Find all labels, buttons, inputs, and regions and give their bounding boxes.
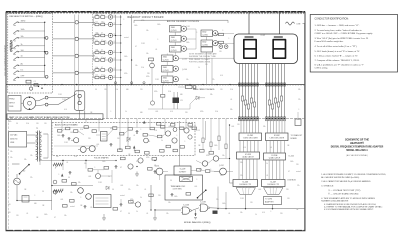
svg-text:27k: 27k <box>298 99 301 101</box>
display digit V1 <box>243 36 257 59</box>
svg-text:47: 47 <box>101 14 103 16</box>
capacitor C1 trimmer cluster <box>26 80 43 90</box>
svg-text:33k: 33k <box>56 156 59 158</box>
svg-text:1k: 1k <box>255 214 257 216</box>
svg-text:120: 120 <box>96 33 99 35</box>
svg-text:10k: 10k <box>10 151 13 153</box>
resistor R71 <box>118 149 123 152</box>
svg-text:470k: 470k <box>141 20 145 22</box>
svg-text:FOR PIN CONNECTIONS.: FOR PIN CONNECTIONS. <box>189 61 211 63</box>
wire lower left rails <box>40 119 104 210</box>
transistor Q103 digit driver stage <box>93 32 122 37</box>
svg-text:47: 47 <box>135 46 137 48</box>
svg-text:S2: S2 <box>23 171 25 173</box>
svg-text:100k: 100k <box>174 196 178 198</box>
wire IC202 to IC204 <box>267 141 285 154</box>
svg-text:120: 120 <box>237 124 240 126</box>
svg-text:Q-1: Q-1 <box>114 50 117 52</box>
svg-text:Q-2N41: Q-2N41 <box>163 80 169 82</box>
svg-text:MODEL IMA-2420-1 (FREQ): MODEL IMA-2420-1 (FREQ) <box>184 221 211 224</box>
svg-text:10k: 10k <box>135 65 138 67</box>
diode D61 <box>106 186 109 190</box>
capacitor C44 <box>109 143 112 146</box>
svg-text:56: 56 <box>68 177 70 179</box>
svg-text:4. THIS SCHEMATIC APPLIES TO: 4. THIS SCHEMATIC APPLIES TO MODELS WITH… <box>321 197 375 200</box>
transistor Q212 <box>201 40 218 47</box>
bus collector trapezoid A <box>236 187 256 195</box>
label pulse amp <box>94 156 109 159</box>
wire amp links <box>62 129 165 137</box>
svg-text:C1: C1 <box>34 81 36 83</box>
svg-text:100k: 100k <box>186 42 190 44</box>
wire readout vertical bus A <box>115 15 117 119</box>
svg-text:3.3k: 3.3k <box>199 169 202 171</box>
svg-text:27k: 27k <box>30 177 33 179</box>
svg-text:470k: 470k <box>146 76 150 78</box>
svg-text:10k: 10k <box>64 215 67 217</box>
transistor Q41 <box>71 138 79 143</box>
transistor Q105 <box>150 61 155 85</box>
resistor bundle R31 <box>244 100 246 105</box>
connector shell P2 <box>75 91 85 111</box>
title block schematic of the heathkit <box>331 139 384 158</box>
resistor R1 input divider <box>6 40 13 51</box>
svg-text:2. ALL CAPACITOR VALUES IN µF: 2. ALL CAPACITOR VALUES IN µF UNLESS MAR… <box>321 180 371 183</box>
readout board dashed boundary <box>93 14 305 85</box>
component value labels <box>8 15 301 220</box>
wire right mid <box>196 159 229 164</box>
resistor bundle R42 <box>274 98 276 103</box>
svg-text:3.3k: 3.3k <box>103 58 106 60</box>
transistor Q203 <box>170 46 187 53</box>
transistor Q47 <box>188 135 192 139</box>
switch contact S1B-6 <box>13 56 45 61</box>
svg-text:TIME BASE OSC: TIME BASE OSC <box>171 185 186 188</box>
svg-text:47: 47 <box>101 49 103 51</box>
fuse F1 <box>14 178 21 185</box>
svg-text:.005: .005 <box>88 176 91 178</box>
wire segment ag V1 <box>257 64 259 119</box>
wire segment bf V2 <box>281 64 283 119</box>
svg-text:SCHMITT: SCHMITT <box>179 172 187 174</box>
capacitor C91 <box>170 193 173 196</box>
svg-text:1. GRD bus — foreman — RGB, a: 1. GRD bus — foreman — RGB, and across "… <box>315 24 360 27</box>
svg-text:100k: 100k <box>124 56 128 58</box>
svg-text:15k: 15k <box>30 155 33 157</box>
svg-text:.005: .005 <box>231 126 234 128</box>
svg-text:CONN" to a 100 kΩ / DIP — CONN: CONN" to a 100 kΩ / DIP — CONN. B/TUBE 1… <box>315 32 374 35</box>
svg-text:1k: 1k <box>136 211 138 213</box>
resistor R51 <box>180 146 184 149</box>
transistor Q64 <box>130 202 141 207</box>
transistor Q107 digit driver stage <box>93 67 122 72</box>
svg-text:.01: .01 <box>144 189 146 191</box>
svg-text:33k: 33k <box>240 162 243 164</box>
display digit V2 <box>272 36 286 59</box>
transistor Q82 <box>213 156 218 161</box>
wire bottom rail <box>104 210 155 218</box>
wire stack link <box>166 72 168 76</box>
svg-text:120: 120 <box>8 212 11 214</box>
wire segment driver header rail <box>134 20 228 23</box>
transistor Q45 <box>172 138 177 143</box>
svg-text:10k: 10k <box>146 53 149 55</box>
svg-text:IC-205: IC-205 <box>289 155 294 157</box>
resistor R69 <box>129 201 134 204</box>
switch S3 cal <box>197 189 207 198</box>
svg-text:3.3k: 3.3k <box>154 130 157 132</box>
svg-text:V1 V2: V1 V2 <box>261 35 266 37</box>
resistor R49 <box>158 135 162 138</box>
resistor R63 <box>62 180 67 183</box>
transistor Q42 <box>78 146 86 152</box>
crystal Y1 <box>180 177 193 182</box>
svg-text:4.7k: 4.7k <box>220 75 223 77</box>
svg-text:56: 56 <box>16 123 18 125</box>
wire mid vertical a <box>119 119 121 149</box>
transistor Q104 digit driver stage <box>93 40 122 45</box>
transistor Q43 <box>87 146 96 152</box>
resistor R54 <box>166 145 170 148</box>
svg-text:Q-2N41: Q-2N41 <box>202 34 208 36</box>
wire driver pair brace <box>93 70 95 78</box>
svg-text:5. GDC loads (brown) is a red: 5. GDC loads (brown) is a red "D" is bro… <box>315 50 361 53</box>
wire lower mid links <box>63 161 112 184</box>
resistor R47 <box>143 134 147 137</box>
svg-text:FREQ: FREQ <box>9 99 15 101</box>
svg-text:DIGITAL FREQUENCY/TEMPERATURE: DIGITAL FREQUENCY/TEMPERATURE ADAPTER <box>331 145 384 148</box>
svg-text:Q-2N41: Q-2N41 <box>171 30 177 32</box>
capacitor C32 rail <box>53 119 57 194</box>
label Q103 <box>182 59 187 72</box>
resistor bundle R30 <box>241 96 243 101</box>
svg-text:.1: .1 <box>80 197 81 199</box>
capacitor C96 gate coupling <box>194 213 197 220</box>
node bus taps <box>114 82 145 84</box>
svg-text:QUAD LATCH: QUAD LATCH <box>269 157 281 160</box>
wire mid rail <box>40 160 115 161</box>
svg-text:7-SEG DECODER: 7-SEG DECODER <box>269 138 285 140</box>
svg-text:220: 220 <box>140 89 143 91</box>
wire segment be V2 <box>278 64 280 119</box>
label main circuit board <box>193 88 215 91</box>
svg-text:1MHz: 1MHz <box>21 21 26 23</box>
resistor R55 <box>173 149 177 152</box>
svg-text:10k: 10k <box>240 212 243 214</box>
svg-text:Q-2N41: Q-2N41 <box>171 40 177 42</box>
svg-text:NOTE: SEGMENT LETTERS ARE: NOTE: SEGMENT LETTERS ARE <box>189 53 217 56</box>
svg-text:.1: .1 <box>94 167 95 169</box>
wire diagonal jack feed <box>58 94 77 105</box>
svg-text:470k: 470k <box>206 155 210 157</box>
wire IC204 to IC207 <box>266 160 284 180</box>
capacitor C95 dark <box>213 211 218 214</box>
capacitor C42 <box>135 130 138 134</box>
svg-text:Q-1: Q-1 <box>114 68 117 70</box>
switch contact S1B-1 <box>13 21 45 26</box>
svg-text:LINE: LINE <box>10 142 15 144</box>
node connector P1-2 <box>75 37 78 40</box>
capacitor C110 <box>150 85 154 106</box>
diode D110 <box>196 96 205 100</box>
switch contact S1B-2 <box>13 29 45 34</box>
wire segment bb V2 <box>269 64 271 119</box>
svg-text:.1: .1 <box>196 32 197 34</box>
wire AC feed right edge <box>303 24 305 231</box>
svg-text:47: 47 <box>288 171 290 173</box>
resistor lower feed taps <box>202 136 227 149</box>
node connector P1-4 <box>75 71 78 74</box>
svg-text:IC-203: IC-203 <box>245 154 251 156</box>
wire IC203 to IC206 <box>239 159 257 180</box>
connector band V2 lower <box>266 117 286 121</box>
IC U206 counter <box>262 180 286 187</box>
IC U202 seven segment decoder <box>266 133 289 141</box>
svg-text:R1: R1 <box>6 46 8 48</box>
notes box conductor identification <box>310 15 397 73</box>
svg-text:TO DVM: TO DVM <box>265 199 272 201</box>
resistor R103 <box>149 58 154 61</box>
terminal block input label box <box>8 96 21 112</box>
resistor R61 pot <box>53 163 63 169</box>
svg-text:IC-202: IC-202 <box>274 135 280 137</box>
wire IC201 input pins <box>241 120 258 133</box>
transistor Q202 <box>170 36 187 43</box>
svg-text:15k: 15k <box>96 15 99 17</box>
arrow +5V b <box>143 121 145 124</box>
svg-text:47: 47 <box>101 67 103 69</box>
svg-text:.1: .1 <box>298 109 299 111</box>
svg-text:33k: 33k <box>24 159 27 161</box>
svg-text:Q-2N41: Q-2N41 <box>163 70 169 72</box>
svg-text:56: 56 <box>42 191 44 193</box>
svg-text:33k: 33k <box>263 126 266 128</box>
svg-text:.01: .01 <box>155 49 157 51</box>
ground G1 <box>135 172 139 177</box>
svg-text:BOARD: BOARD <box>291 137 298 140</box>
resistor hang R208 <box>188 124 200 133</box>
transistor Q48 <box>144 138 149 143</box>
svg-text:1k: 1k <box>125 111 127 113</box>
svg-text:7-SEG DECODER: 7-SEG DECODER <box>243 138 259 140</box>
wire driver pair brace <box>93 17 95 25</box>
capacitor C61 <box>114 165 117 169</box>
transistor Q201 <box>170 26 187 33</box>
svg-text:6. 1 100 µs values marked "B": 6. 1 100 µs values marked "B" — ranges: … <box>315 54 359 57</box>
svg-text:.01: .01 <box>66 162 68 164</box>
wire power loop <box>12 145 52 201</box>
svg-text:HEATHKIT SCHEMATIC 595-1696: HEATHKIT SCHEMATIC 595-1696 <box>3 45 6 77</box>
transistor Q106 digit driver stage <box>93 57 122 62</box>
svg-text:120: 120 <box>8 204 11 206</box>
label main board strip <box>7 114 103 120</box>
node jack lugs <box>45 96 48 106</box>
svg-text:.005: .005 <box>258 189 261 191</box>
svg-text:T1: T1 <box>36 128 38 130</box>
transistor Q71 <box>128 164 133 169</box>
label page margin vertical <box>3 45 6 77</box>
svg-text:100k: 100k <box>8 121 12 123</box>
svg-text:27k: 27k <box>212 79 215 81</box>
svg-text:.005: .005 <box>155 111 158 113</box>
svg-text:1MΩ: 1MΩ <box>9 106 14 108</box>
svg-text:33k: 33k <box>298 89 301 91</box>
transistor Q101 digit driver stage <box>93 14 122 19</box>
resistor R70 <box>113 208 118 211</box>
wire counters to rail <box>230 125 246 209</box>
svg-text:3.3k: 3.3k <box>230 89 233 91</box>
svg-text:.1: .1 <box>123 19 124 21</box>
svg-text:.01: .01 <box>133 135 135 137</box>
wire range bus 4 <box>53 72 95 74</box>
resistor bundle R32 <box>247 104 249 109</box>
svg-text:100k: 100k <box>214 145 218 147</box>
svg-text:1. ALL RESISTORS ARE 1/4 WATT: 1. ALL RESISTORS ARE 1/4 WATT, 5% UNLESS… <box>321 173 386 176</box>
svg-text:56: 56 <box>170 180 172 182</box>
svg-text:.01: .01 <box>96 68 98 70</box>
svg-text:.1: .1 <box>58 174 59 176</box>
wire line to transformer <box>27 134 48 158</box>
svg-text:.01: .01 <box>26 213 28 215</box>
svg-text:QUAD LATCH: QUAD LATCH <box>242 156 254 159</box>
resistor R52 <box>84 126 88 129</box>
resistor R82 <box>209 152 214 155</box>
svg-text:220: 220 <box>286 189 289 191</box>
svg-text:IC-209: IC-209 <box>180 168 185 170</box>
svg-text:33k: 33k <box>103 75 106 77</box>
node connector P1-3 <box>75 54 78 57</box>
capacitor C63 <box>119 199 122 206</box>
svg-text:MAIN CIRCUIT BOARD: MAIN CIRCUIT BOARD <box>193 88 215 91</box>
svg-text:100k: 100k <box>44 214 48 216</box>
svg-text:220: 220 <box>147 73 150 75</box>
svg-text:ANODE SEGMENT DRIVERS: ANODE SEGMENT DRIVERS <box>167 20 200 23</box>
resistor R66 <box>63 205 68 208</box>
resistor R56 <box>135 150 139 153</box>
svg-text:READOUT CIRCUIT BOARD: READOUT CIRCUIT BOARD <box>128 16 164 19</box>
svg-text:TO READOUT: TO READOUT <box>291 134 304 137</box>
resistor R68 <box>104 167 109 170</box>
svg-text:DECADE CTR: DECADE CTR <box>239 183 251 186</box>
svg-text:4.7k: 4.7k <box>262 212 265 214</box>
resistor R44 <box>113 127 117 130</box>
svg-text:220: 220 <box>117 138 120 140</box>
label model number <box>184 221 211 224</box>
switch S2 power <box>19 164 30 175</box>
svg-text:1.5k: 1.5k <box>95 21 98 23</box>
resistor R62 pot <box>53 190 63 196</box>
svg-text:100k: 100k <box>134 25 138 27</box>
resistor R45 <box>120 132 124 135</box>
resistor R65 <box>70 200 75 203</box>
svg-text:100k: 100k <box>102 161 106 163</box>
svg-text:470k: 470k <box>124 73 128 75</box>
wire segment bc V2 <box>272 64 274 119</box>
wire range bus 2 <box>53 38 95 40</box>
wire segment ae V1 <box>251 64 253 119</box>
capacitor C41 <box>61 134 64 137</box>
label V1 V2 <box>261 35 266 37</box>
svg-text:10k: 10k <box>84 163 87 165</box>
svg-text:COM is wiring.: COM is wiring. <box>315 66 329 69</box>
svg-text:10k: 10k <box>21 36 24 38</box>
wire segment ab V1 <box>242 64 244 119</box>
svg-text:3.3k: 3.3k <box>80 129 83 131</box>
svg-text:56: 56 <box>112 189 114 191</box>
svg-text:15k: 15k <box>220 175 223 177</box>
wire osc input <box>149 185 153 211</box>
svg-text:3.3k: 3.3k <box>168 91 171 93</box>
resistor R50 <box>180 127 184 130</box>
IC U203 latch <box>237 152 260 159</box>
wire mid band links <box>148 98 196 109</box>
svg-text:4.3 VOLTAGES MEASURED WITH NO: 4.3 VOLTAGES MEASURED WITH NO SIGNAL INP… <box>324 208 374 211</box>
svg-text:IC-206: IC-206 <box>242 181 248 183</box>
svg-text:Q-1: Q-1 <box>114 22 117 24</box>
svg-text:470k: 470k <box>146 157 150 159</box>
resistor bundle R40 <box>268 100 270 105</box>
resistor R46 <box>128 128 132 131</box>
wire stacks to display <box>178 29 234 58</box>
wire bottom right rail <box>233 208 305 209</box>
svg-text:120: 120 <box>250 202 253 204</box>
svg-text:IC-204: IC-204 <box>272 155 278 157</box>
transistor Q62 <box>86 194 92 200</box>
svg-text:47: 47 <box>101 32 103 34</box>
jack J1 input connector <box>21 97 39 110</box>
wire driver pair brace <box>93 36 95 44</box>
svg-text:56: 56 <box>270 147 272 149</box>
svg-text:.1: .1 <box>110 111 111 113</box>
label S1B selector switch title <box>9 16 43 18</box>
ground G3 <box>153 218 157 220</box>
svg-text:Q-2N41: Q-2N41 <box>202 44 208 46</box>
resistor R205 <box>197 169 201 172</box>
wire main horizontal interconnect bus <box>6 84 305 86</box>
resistor R41 <box>58 130 62 133</box>
svg-text:.01: .01 <box>230 99 232 101</box>
svg-text:27k: 27k <box>216 199 219 201</box>
resistor R76 <box>160 150 165 153</box>
transistor Q72 <box>138 158 143 163</box>
resistor R75 <box>152 158 157 161</box>
svg-text:Q-1: Q-1 <box>114 58 117 60</box>
wire gate chain <box>154 208 233 213</box>
svg-text:33k: 33k <box>210 94 213 96</box>
svg-text:.1: .1 <box>210 169 211 171</box>
svg-text:Q-2N41: Q-2N41 <box>163 59 169 61</box>
svg-text:33k: 33k <box>230 109 233 111</box>
svg-text:3. SYMBOLS:: 3. SYMBOLS: <box>321 186 334 188</box>
svg-text:56: 56 <box>162 156 164 158</box>
transistor Q223 <box>162 76 179 83</box>
svg-text:SHOWN AT THE DISPLAY TUBE: SHOWN AT THE DISPLAY TUBE <box>189 55 216 58</box>
label segment drivers header <box>167 20 200 23</box>
svg-text:470k: 470k <box>110 128 114 130</box>
svg-text:100: 100 <box>21 50 24 52</box>
terminal block line input <box>9 132 27 148</box>
svg-text:220: 220 <box>102 22 105 24</box>
svg-text:27k: 27k <box>112 155 115 157</box>
svg-text:120: 120 <box>104 89 107 91</box>
resistor bundle R43 <box>277 102 279 107</box>
svg-text:3.3k: 3.3k <box>136 161 139 163</box>
svg-text:120: 120 <box>220 89 223 91</box>
oscillator enclosure <box>165 175 203 200</box>
resistor R211 <box>216 41 224 44</box>
wire stack link <box>166 62 168 66</box>
svg-text:2. To avoid noisy lines, and/: 2. To avoid noisy lines, and/or "Index a… <box>315 29 363 32</box>
